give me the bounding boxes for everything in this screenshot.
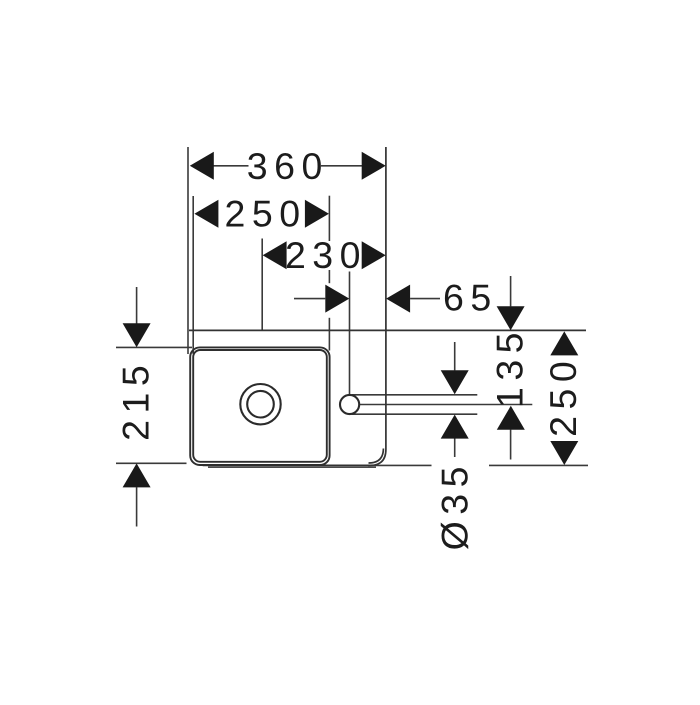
arrow 230 right: [362, 241, 386, 269]
svg-text:65: 65: [443, 277, 498, 319]
faucet center vertical line: [349, 272, 351, 395]
arrow dia35 bottom pointing up: [441, 415, 469, 439]
arrow 360 right: [362, 152, 386, 180]
dimension line 135 lower: [510, 430, 512, 460]
extension line drain center 230: [261, 239, 263, 330]
dimension line 360 left segment: [213, 165, 249, 167]
arrow 230 left: [263, 241, 287, 269]
arrow 250 right: [305, 200, 329, 228]
dimension line 360 right segment: [321, 165, 363, 167]
svg-text:230: 230: [285, 234, 367, 276]
faucet hole circle: [340, 395, 359, 414]
drain outer circle: [240, 384, 280, 424]
svg-text:135: 135: [488, 326, 530, 408]
arrow 65 pointing left at right edge: [386, 285, 410, 313]
svg-text:360: 360: [247, 145, 329, 187]
drain inner circle: [247, 391, 274, 418]
leader line 65 left: [294, 298, 325, 300]
faucet bottom tangent line: [352, 413, 478, 415]
basin bottom-right inner corner: [369, 449, 384, 464]
arrow dia35 top pointing down: [441, 370, 469, 394]
arrow 360 left: [190, 152, 214, 180]
arrow 250 right top pointing up: [550, 331, 578, 355]
arrow 250 right bottom pointing down: [550, 441, 578, 465]
bottom edge extension line left part: [368, 464, 432, 466]
basin front edge second line: [208, 466, 376, 468]
svg-text:215: 215: [115, 359, 157, 441]
faucet top tangent line: [352, 394, 478, 396]
extension line left 360: [187, 147, 189, 354]
faucet center horizontal line: [360, 404, 533, 406]
leader line 65 right: [410, 298, 440, 300]
extension line left 250: [192, 196, 194, 354]
tick 215 bottom: [116, 462, 187, 464]
bowl outer contour: [190, 347, 329, 465]
svg-text:250: 250: [542, 355, 584, 437]
bowl inner contour: [193, 350, 327, 462]
dimension line 135 upper: [510, 276, 512, 306]
arrow 135 top pointing down: [497, 306, 525, 330]
arrow 65 pointing right at faucet line: [325, 285, 349, 313]
arrow 250 left: [194, 200, 218, 228]
svg-text:250: 250: [225, 193, 307, 235]
basin right edge: [203, 147, 386, 465]
extension line right 250 lower: [328, 318, 330, 351]
dimension line 215 upper: [136, 287, 138, 324]
extension line right 250 upper: [328, 196, 330, 241]
arrow 215 top pointing down: [123, 323, 151, 347]
arrow 135 bottom pointing up: [497, 406, 525, 430]
basin top edge: [189, 329, 586, 331]
bottom edge extension line right part: [489, 464, 588, 466]
dimension line dia35 upper: [454, 342, 456, 370]
svg-text:Ø35: Ø35: [434, 460, 476, 550]
tick 215 top: [116, 346, 192, 348]
dimension line 215 lower: [136, 487, 138, 526]
arrow 215 bottom pointing up: [123, 463, 151, 487]
extension line right 250 middle: [328, 270, 330, 283]
dimension line dia35 lower: [454, 438, 456, 457]
